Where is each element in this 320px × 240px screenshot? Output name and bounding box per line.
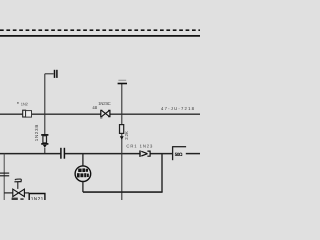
svg-text:48: 48 [92,105,97,110]
svg-text:47-JU-7218: 47-JU-7218 [161,106,195,111]
svg-text:1N2: 1N2 [21,102,29,107]
svg-text:2.2K: 2.2K [124,131,129,140]
svg-text:50Ω: 50Ω [175,152,183,158]
svg-text:1N23C: 1N23C [98,101,111,106]
svg-text:CR1 1N23: CR1 1N23 [126,143,153,148]
svg-text:1N23B: 1N23B [34,125,39,142]
svg-text:1N21: 1N21 [31,197,44,200]
